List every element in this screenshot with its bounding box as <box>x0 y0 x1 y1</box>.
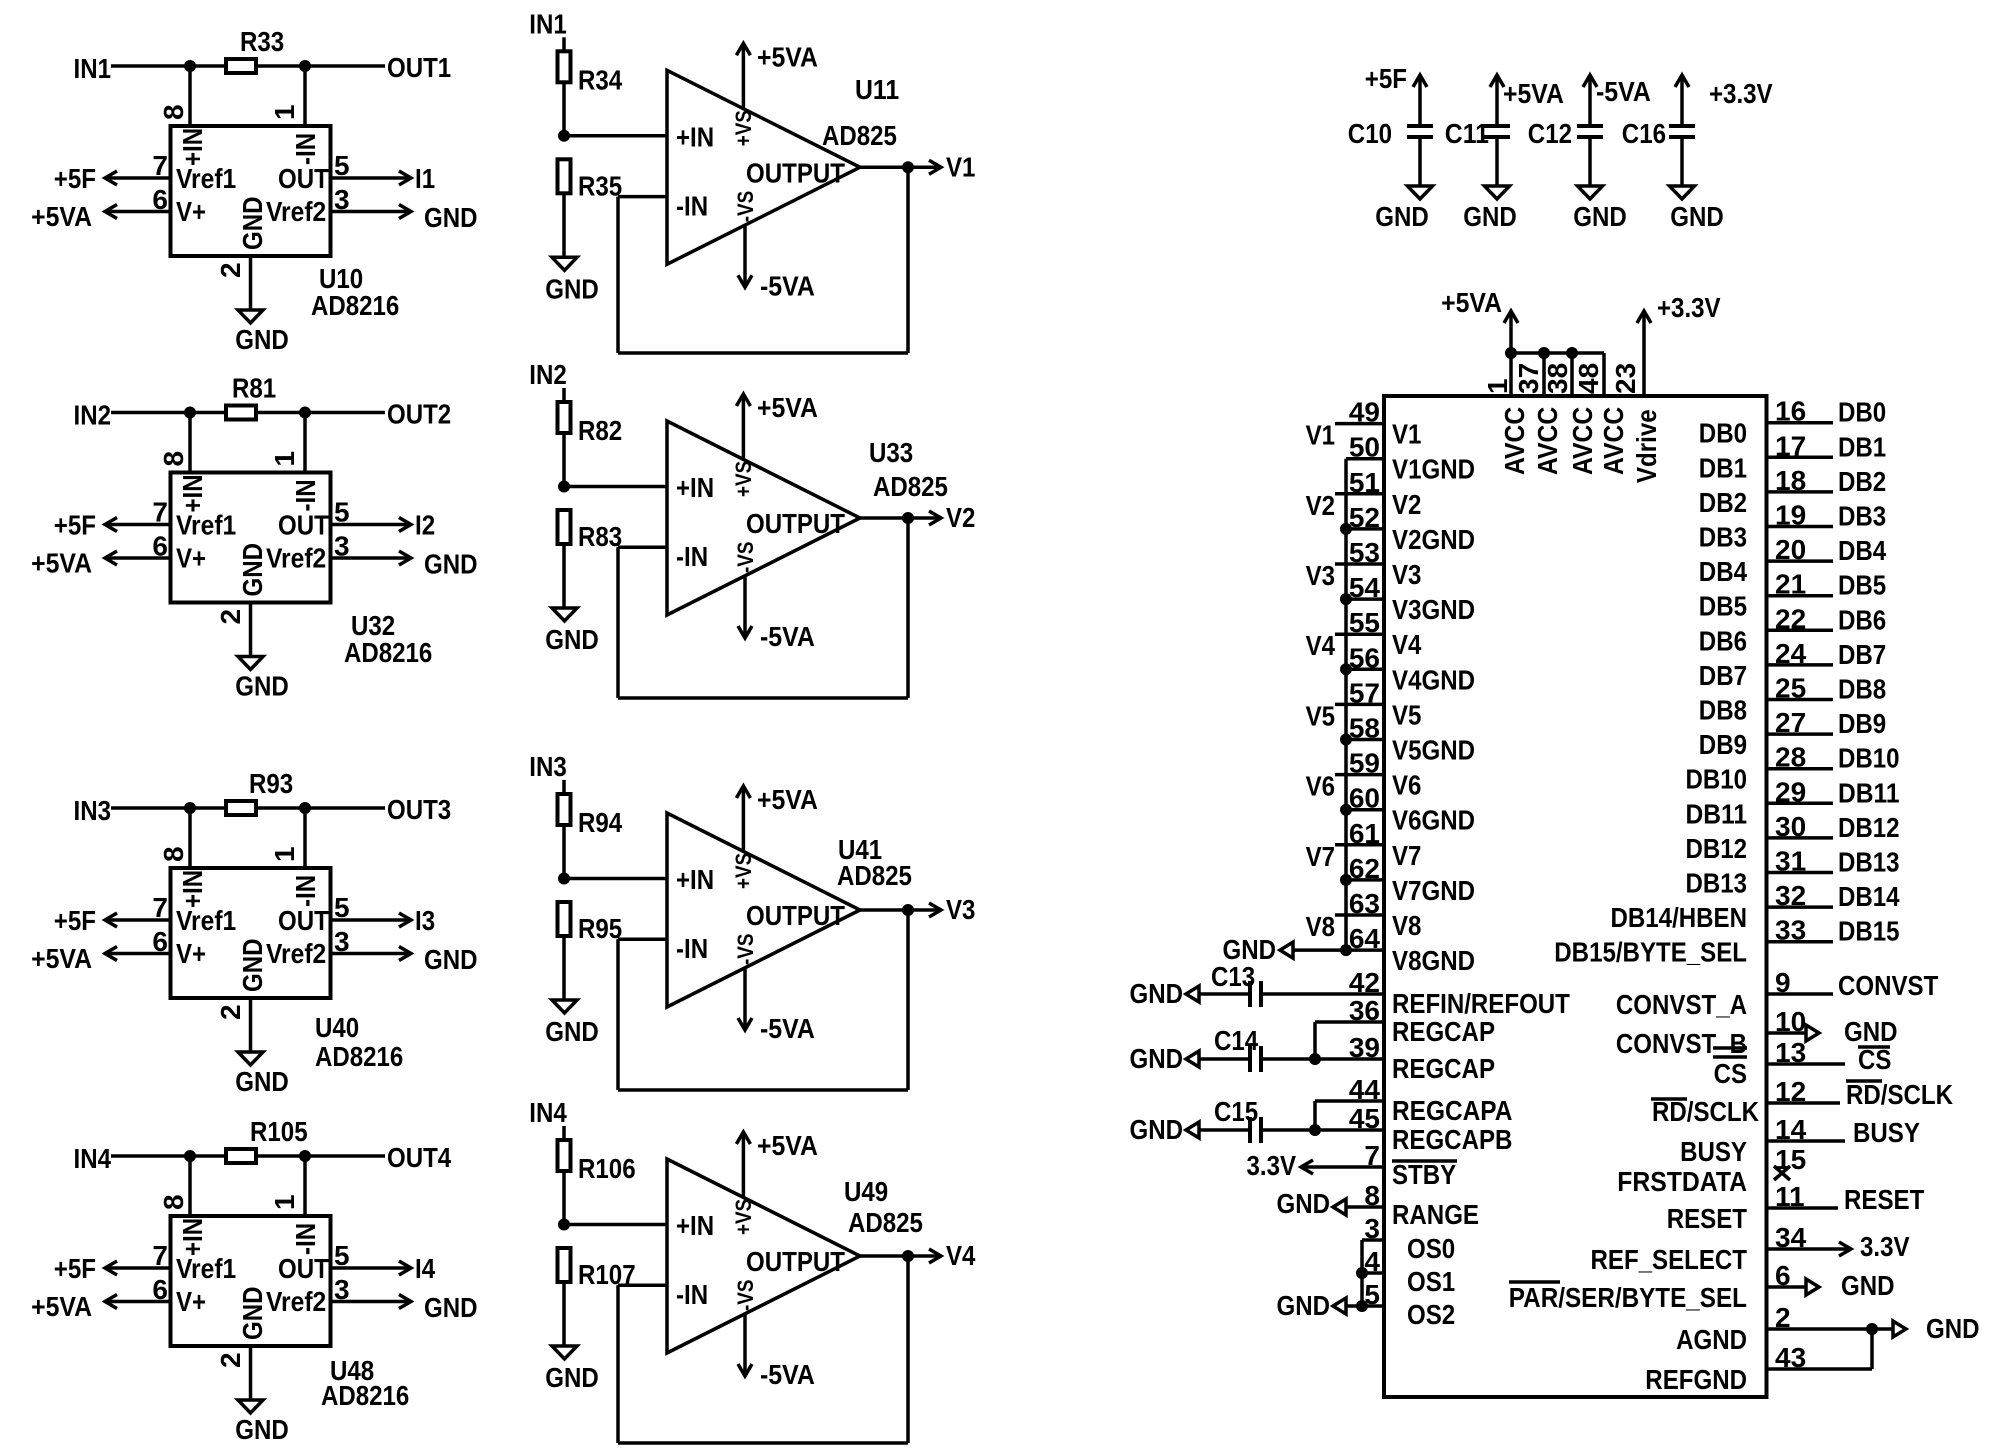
wire pin 24 <box>1767 663 1834 667</box>
pin 38 stub <box>1570 353 1574 396</box>
svg-text:DB6: DB6 <box>1838 604 1886 635</box>
svg-text:V1: V1 <box>1392 419 1421 450</box>
op-amp triangle U41 <box>667 813 860 1007</box>
svg-text:-5VA: -5VA <box>1596 76 1651 107</box>
ground symbol <box>1893 1321 1906 1337</box>
junction OS bus pin 4 <box>1356 1267 1368 1279</box>
svg-text:RESET: RESET <box>1667 1203 1747 1234</box>
capacitor C13 <box>1248 981 1252 1007</box>
wire R95 to ground <box>562 936 566 1000</box>
svg-text:Vdrive: Vdrive <box>1631 409 1662 483</box>
resistor R83 <box>558 510 571 544</box>
wire pin 2 to ground <box>249 603 253 657</box>
svg-text:OUT: OUT <box>278 510 329 541</box>
svg-text:+VS: +VS <box>731 1199 756 1235</box>
svg-text:DB9: DB9 <box>1838 708 1886 739</box>
svg-text:GND: GND <box>424 1292 478 1323</box>
wire pin 9 <box>1767 992 1834 996</box>
svg-text:GND: GND <box>1926 1313 1980 1344</box>
svg-text:C11: C11 <box>1445 118 1489 149</box>
resistor R106 <box>558 1140 571 1171</box>
svg-text:-VS: -VS <box>733 191 758 223</box>
wire pin 21 <box>1767 594 1834 598</box>
svg-text:-VS: -VS <box>733 1280 758 1312</box>
ground symbol <box>1186 1122 1199 1138</box>
svg-text:DB7: DB7 <box>1699 660 1747 691</box>
wire -IN stub <box>618 546 667 550</box>
svg-text:-IN: -IN <box>676 1279 708 1310</box>
svg-text:OUTPUT: OUTPUT <box>746 508 845 539</box>
svg-text:V4GND: V4GND <box>1392 664 1475 695</box>
svg-text:DB15/BYTE_SEL: DB15/BYTE_SEL <box>1554 937 1747 968</box>
svg-text:+IN: +IN <box>676 121 714 152</box>
svg-text:+VS: +VS <box>731 853 756 889</box>
svg-text:C14: C14 <box>1214 1025 1259 1056</box>
wire +IN drop <box>188 1156 192 1216</box>
svg-text:V3: V3 <box>946 894 975 925</box>
wire pin 42 to C13 <box>1263 992 1384 996</box>
pin 48 stub <box>1602 353 1606 396</box>
ground symbol <box>1578 186 1603 199</box>
svg-text:V8GND: V8GND <box>1392 945 1475 976</box>
resistor R95 <box>558 902 571 936</box>
svg-text:+IN: +IN <box>676 864 714 895</box>
svg-text:REGCAP: REGCAP <box>1392 1053 1495 1084</box>
svg-text:OUT: OUT <box>278 905 329 936</box>
capacitor C15 <box>1248 1117 1252 1143</box>
wire feedback bottom <box>618 1441 908 1445</box>
svg-text:V8: V8 <box>1306 911 1335 942</box>
svg-text:AD8216: AD8216 <box>321 1380 409 1411</box>
svg-text:R82: R82 <box>578 415 622 446</box>
wire pin 44 to pin 45 <box>1313 1101 1317 1130</box>
wire pin 30 <box>1767 836 1834 840</box>
svg-text:2: 2 <box>215 262 246 278</box>
wire IN3 to R94 <box>562 780 566 794</box>
wire pin 3 to GND <box>331 556 412 560</box>
svg-text:U40: U40 <box>315 1012 359 1043</box>
svg-text:+IN: +IN <box>177 870 208 908</box>
svg-text:+VS: +VS <box>731 461 756 497</box>
svg-text:V5GND: V5GND <box>1392 735 1475 766</box>
wire R106 to +IN node <box>562 1171 566 1225</box>
wire pin 11 <box>1767 1206 1839 1210</box>
wire pin 16 <box>1767 421 1834 425</box>
svg-text:R95: R95 <box>578 913 622 944</box>
wire R81 to OUT2 <box>256 411 385 415</box>
wire pin 49 <box>1335 422 1384 426</box>
svg-text:+IN: +IN <box>676 472 714 503</box>
svg-text:Vref1: Vref1 <box>176 163 236 194</box>
svg-text:FRSTDATA: FRSTDATA <box>1617 1166 1747 1197</box>
wire -IN drop <box>303 413 307 473</box>
wire pin 36 <box>1315 1020 1384 1024</box>
capacitor C14 <box>1248 1046 1252 1072</box>
junction AVCC pin 1 <box>1505 347 1517 359</box>
ground symbol <box>238 1052 263 1065</box>
junction AVCC pin 37 <box>1538 347 1550 359</box>
wire -IN stub <box>618 938 667 942</box>
svg-text:Vref2: Vref2 <box>266 543 326 574</box>
svg-text:OUT4: OUT4 <box>387 1142 452 1173</box>
svg-text:U33: U33 <box>869 437 913 468</box>
no-connect x <box>1774 1166 1790 1180</box>
wire C11 to +5VA <box>1495 75 1499 126</box>
svg-text:+5VA: +5VA <box>757 1130 818 1161</box>
resistor R33 <box>226 59 256 73</box>
wire -VS to -5VA <box>743 968 747 1030</box>
junction pins 44-45 <box>1309 1124 1321 1136</box>
svg-text:DB6: DB6 <box>1699 625 1747 656</box>
wire IN1 to R34 <box>562 37 566 51</box>
wire feedback left rise <box>616 1285 620 1443</box>
wire feedback right drop <box>906 518 910 698</box>
junction OS bus pin 5 <box>1356 1300 1368 1312</box>
wire pin 13 <box>1767 1062 1846 1066</box>
wire +IN <box>564 485 667 489</box>
junction +IN node <box>184 1150 196 1162</box>
svg-text:-IN: -IN <box>676 541 708 572</box>
wire C13 to ground <box>1199 992 1250 996</box>
svg-text:Vref2: Vref2 <box>266 196 326 227</box>
svg-text:DB1: DB1 <box>1838 431 1886 462</box>
wire -IN drop <box>303 1156 307 1216</box>
svg-text:V8: V8 <box>1392 910 1421 941</box>
svg-text:V5: V5 <box>1306 700 1335 731</box>
svg-text:GND: GND <box>1130 978 1184 1009</box>
svg-text:AD825: AD825 <box>837 860 912 891</box>
svg-text:R35: R35 <box>578 170 622 201</box>
wire pin 6 to +5VA <box>105 556 171 560</box>
wire IN4 to R106 <box>562 1126 566 1140</box>
wire feedback right drop <box>906 1256 910 1443</box>
ground symbol <box>1670 186 1695 199</box>
svg-text:V2: V2 <box>1306 490 1335 521</box>
wire pin 25 <box>1767 698 1834 702</box>
op-amp triangle U49 <box>667 1159 860 1353</box>
svg-text:AD8216: AD8216 <box>344 637 432 668</box>
wire output to V2 <box>860 516 941 520</box>
ground symbol <box>552 257 577 270</box>
wire C15 to ground <box>1199 1128 1250 1132</box>
svg-text:V2: V2 <box>1392 489 1421 520</box>
svg-text:OS0: OS0 <box>1407 1233 1455 1264</box>
junction AVCC pin 38 <box>1566 347 1578 359</box>
wire +IN drop <box>188 413 192 473</box>
wire C10 to ground <box>1418 137 1422 186</box>
IC body U48 <box>171 1216 331 1346</box>
junction output node <box>902 512 914 524</box>
svg-text:23: 23 <box>1610 363 1641 394</box>
svg-text:I3: I3 <box>415 905 435 936</box>
wire pin 7 to +5F <box>105 918 171 922</box>
svg-text:GND: GND <box>545 624 599 655</box>
svg-text:2: 2 <box>215 1352 246 1368</box>
wire feedback right drop <box>906 910 910 1090</box>
svg-text:+5F: +5F <box>1365 63 1407 94</box>
junction +IN node <box>184 60 196 72</box>
svg-text:DB14: DB14 <box>1838 881 1900 912</box>
svg-text:I1: I1 <box>415 163 435 194</box>
wire pin 58 to GND bus <box>1346 738 1384 742</box>
svg-text:V6GND: V6GND <box>1392 805 1475 836</box>
svg-text:8: 8 <box>158 451 189 467</box>
svg-text:Vref2: Vref2 <box>266 1286 326 1317</box>
svg-text:GND: GND <box>1573 201 1627 232</box>
wire +IN <box>564 877 667 881</box>
svg-text:AD825: AD825 <box>873 471 948 502</box>
svg-text:GND: GND <box>1130 1114 1184 1145</box>
ground symbol <box>552 1000 577 1013</box>
svg-text:-IN: -IN <box>676 190 708 221</box>
wire feedback bottom <box>618 696 908 700</box>
svg-text:+5VA: +5VA <box>757 41 818 72</box>
wire pin 52 to GND bus <box>1346 527 1384 531</box>
svg-text:REGCAP: REGCAP <box>1392 1016 1495 1047</box>
junction -IN node <box>299 407 311 419</box>
svg-text:R106: R106 <box>578 1153 636 1184</box>
svg-text:GND: GND <box>1277 1290 1331 1321</box>
svg-text:IN1: IN1 <box>74 53 112 84</box>
ground symbol <box>238 1400 263 1413</box>
wire output to V1 <box>860 166 941 170</box>
wire R94 to +IN node <box>562 825 566 879</box>
wire AVCC to +5VA <box>1509 311 1513 353</box>
svg-text:C10: C10 <box>1348 118 1392 149</box>
pin 1 stub <box>1509 353 1513 396</box>
svg-text:DB9: DB9 <box>1699 729 1747 760</box>
svg-text:AD825: AD825 <box>822 120 897 151</box>
wire C11 to ground <box>1495 137 1499 186</box>
svg-text:U49: U49 <box>844 1176 888 1207</box>
wire pin 10 to GND <box>1767 1031 1807 1035</box>
wire pin 61 <box>1335 843 1384 847</box>
svg-text:Vref1: Vref1 <box>176 510 236 541</box>
ground symbol <box>1408 186 1433 199</box>
wire IN2 to R82 <box>562 388 566 402</box>
wire R35 to ground <box>562 193 566 257</box>
wire output to V4 <box>860 1254 941 1258</box>
svg-text:DB13: DB13 <box>1838 847 1900 878</box>
junction GND bus pin 60 <box>1340 804 1352 816</box>
capacitor C10 <box>1407 124 1433 128</box>
junction +IN node <box>558 1219 570 1231</box>
svg-text:IN2: IN2 <box>529 359 567 390</box>
svg-text:DB12: DB12 <box>1838 812 1900 843</box>
junction +IN node <box>558 873 570 885</box>
svg-text:GND: GND <box>1277 1188 1331 1219</box>
svg-text:GND: GND <box>424 202 478 233</box>
resistor R107 <box>558 1248 571 1282</box>
ADC IC body <box>1384 396 1767 1397</box>
svg-text:DB11: DB11 <box>1686 798 1748 829</box>
overbar net RD <box>1846 1079 1882 1083</box>
svg-text:DB0: DB0 <box>1838 397 1886 428</box>
wire C10 to +5F <box>1418 75 1422 126</box>
svg-text:V4: V4 <box>946 1240 976 1271</box>
wire R34 to +IN node <box>562 82 566 136</box>
junction GND bus pin 58 <box>1340 734 1352 746</box>
svg-text:V2: V2 <box>946 502 975 533</box>
svg-text:V+: V+ <box>176 938 206 969</box>
svg-text:V1: V1 <box>946 151 975 182</box>
wire pin 4 <box>1362 1271 1384 1275</box>
wire pin 57 <box>1335 703 1384 707</box>
wire IN1 to R33 <box>111 64 226 68</box>
wire pin 6 to +5VA <box>105 210 171 214</box>
svg-text:DB4: DB4 <box>1699 556 1748 587</box>
wire pin 5 to I2 <box>331 523 412 527</box>
svg-text:DB12: DB12 <box>1686 833 1748 864</box>
junction output node <box>902 1250 914 1262</box>
svg-text:GND: GND <box>1841 1270 1895 1301</box>
wire +IN drop <box>188 808 192 868</box>
overbar pin CS <box>1713 1055 1747 1059</box>
wire C14 to ground <box>1199 1057 1250 1061</box>
ground symbol <box>238 310 263 323</box>
wire pin 6 to GND <box>1767 1285 1807 1289</box>
svg-text:1: 1 <box>269 846 300 862</box>
svg-text:-5VA: -5VA <box>760 1013 815 1044</box>
wire pin 19 <box>1767 525 1834 529</box>
wire pin 31 <box>1767 871 1834 875</box>
wire pin 2 to ground <box>249 998 253 1052</box>
wire pin 33 <box>1767 940 1834 944</box>
svg-text:R33: R33 <box>240 26 284 57</box>
junction GND bus pin 54 <box>1340 593 1352 605</box>
svg-text:GND: GND <box>235 671 289 702</box>
wire feedback bottom <box>618 351 908 355</box>
svg-text:1: 1 <box>269 104 300 120</box>
wire pin 53 <box>1335 562 1384 566</box>
wire R93 to OUT3 <box>256 806 385 810</box>
svg-text:RANGE: RANGE <box>1392 1199 1479 1230</box>
junction +IN node <box>558 481 570 493</box>
svg-text:REF_SELECT: REF_SELECT <box>1591 1244 1748 1275</box>
svg-text:R34: R34 <box>578 64 623 95</box>
svg-text:V2GND: V2GND <box>1392 524 1475 555</box>
wire pin 3 <box>1362 1238 1384 1242</box>
wire -VS to -5VA <box>743 576 747 638</box>
svg-text:AD8216: AD8216 <box>315 1041 403 1072</box>
svg-text:GND: GND <box>1670 201 1724 232</box>
wire R83 to ground <box>562 544 566 608</box>
svg-text:+5F: +5F <box>54 1253 96 1284</box>
svg-text:V7: V7 <box>1306 841 1335 872</box>
svg-text:GND: GND <box>1375 201 1429 232</box>
op-amp triangle U33 <box>667 421 860 615</box>
svg-text:38: 38 <box>1542 363 1573 394</box>
wire GND bus to ground <box>1293 948 1346 952</box>
svg-text:+5VA: +5VA <box>31 1291 92 1322</box>
wire pin 5 to GND <box>1346 1304 1384 1308</box>
wire R105 to OUT4 <box>256 1154 385 1158</box>
wire R82 to +IN node <box>562 433 566 487</box>
svg-text:AVCC: AVCC <box>1499 407 1530 475</box>
wire pin 8 to GND <box>1346 1205 1384 1209</box>
resistor R81 <box>226 406 256 420</box>
wire -IN stub <box>618 1284 667 1288</box>
IC body U32 <box>171 473 331 603</box>
svg-text:GND: GND <box>1463 201 1517 232</box>
svg-text:1: 1 <box>269 1194 300 1210</box>
junction output node <box>902 904 914 916</box>
svg-text:AVCC: AVCC <box>1567 407 1598 475</box>
svg-text:DB7: DB7 <box>1838 639 1886 670</box>
svg-text:DB15: DB15 <box>1838 916 1900 947</box>
wire pin 29 <box>1767 802 1834 806</box>
wire pin 7 to +5F <box>105 176 171 180</box>
svg-text:-5VA: -5VA <box>760 270 815 301</box>
svg-text:2: 2 <box>215 609 246 625</box>
svg-text:GND: GND <box>235 1414 289 1445</box>
svg-text:DB2: DB2 <box>1699 487 1747 518</box>
resistor R82 <box>558 402 571 433</box>
svg-text:GND: GND <box>1130 1043 1184 1074</box>
wire output to V3 <box>860 908 941 912</box>
wire pin 63 <box>1335 913 1384 917</box>
svg-text:CONVST_B: CONVST_B <box>1616 1028 1747 1059</box>
svg-text:DB3: DB3 <box>1838 501 1886 532</box>
wire pin 14 <box>1767 1139 1846 1143</box>
wire pin 59 <box>1335 773 1384 777</box>
svg-text:-IN: -IN <box>290 133 321 165</box>
svg-text:OUT: OUT <box>278 163 329 194</box>
wire +VS to +5VA <box>742 43 746 108</box>
svg-text:+IN: +IN <box>177 1218 208 1256</box>
svg-text:-IN: -IN <box>290 1223 321 1255</box>
svg-text:STBY: STBY <box>1392 1159 1456 1190</box>
wire pin 27 <box>1767 732 1834 736</box>
svg-text:GND: GND <box>424 944 478 975</box>
wire feedback left rise <box>616 939 620 1090</box>
capacitor C11 <box>1484 124 1510 128</box>
svg-text:R94: R94 <box>578 807 623 838</box>
svg-text:V3: V3 <box>1392 559 1421 590</box>
svg-text:-VS: -VS <box>733 542 758 574</box>
svg-text:OS1: OS1 <box>1407 1266 1455 1297</box>
svg-text:V5: V5 <box>1392 699 1421 730</box>
svg-text:8: 8 <box>158 846 189 862</box>
wire feedback left rise <box>616 197 620 353</box>
svg-text:V1GND: V1GND <box>1392 454 1475 485</box>
svg-text:OUT1: OUT1 <box>387 52 451 83</box>
svg-text:Vref1: Vref1 <box>176 1253 236 1284</box>
svg-text:-VS: -VS <box>733 934 758 966</box>
resistor R93 <box>226 801 256 815</box>
svg-text:48: 48 <box>1573 363 1604 394</box>
svg-text:R81: R81 <box>232 373 276 404</box>
svg-text:OS2: OS2 <box>1407 1299 1455 1330</box>
junction output node <box>902 161 914 173</box>
junction -IN node <box>299 1150 311 1162</box>
svg-text:CONVST_A: CONVST_A <box>1616 989 1747 1020</box>
svg-text:V3: V3 <box>1306 560 1335 591</box>
wire feedback right drop <box>906 167 910 353</box>
wire pin 2 to ground <box>249 256 253 310</box>
wire feedback bottom <box>618 1088 908 1092</box>
svg-text:2: 2 <box>215 1004 246 1020</box>
wire pin 6 to +5VA <box>105 952 171 956</box>
wire -IN drop <box>303 66 307 126</box>
wire pin 17 <box>1767 456 1834 460</box>
wire pin 5 to I1 <box>331 176 412 180</box>
IC body U10 <box>171 126 331 256</box>
svg-text:V1: V1 <box>1306 420 1335 451</box>
pin 37 stub <box>1542 353 1546 396</box>
wire pin 3 to GND <box>331 1300 412 1304</box>
svg-text:DB10: DB10 <box>1686 764 1748 795</box>
